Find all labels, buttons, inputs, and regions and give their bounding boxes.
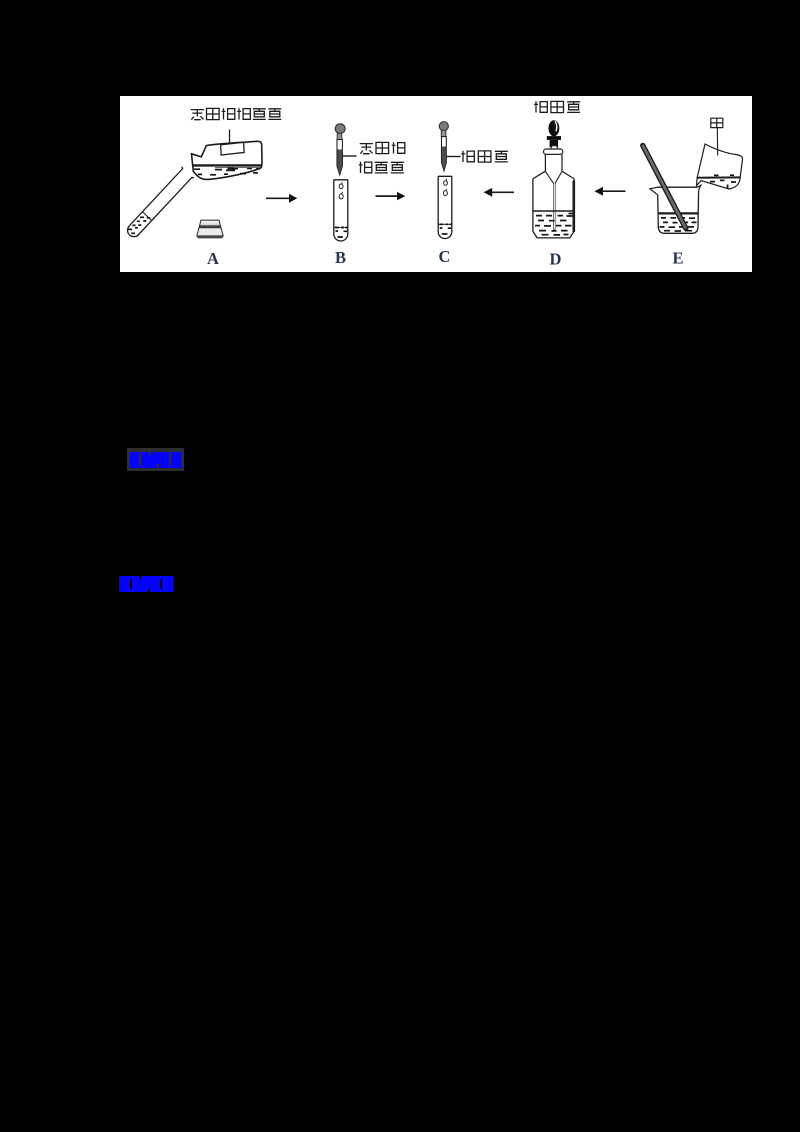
large beaker left spout xyxy=(650,187,658,194)
dropper B collar xyxy=(337,133,342,139)
tube B liquid surface and dashes xyxy=(334,227,347,229)
glass stirring rod xyxy=(643,146,686,229)
dropper cap collar xyxy=(547,136,561,147)
droplet 1 in C xyxy=(444,179,448,185)
blue heading block 2 (answer) xyxy=(119,576,173,592)
droplet 1 in B xyxy=(339,182,343,188)
bottle liquid surface xyxy=(533,210,573,212)
test tube C xyxy=(438,176,452,238)
leader line from label to bottle xyxy=(229,130,231,145)
large beaker liquid dashes xyxy=(660,218,697,231)
leader line to dilute sulfuric acid label xyxy=(447,156,461,158)
label text: NaOH solution (6 chars) xyxy=(191,108,282,120)
label text: dilute sulfuric acid xyxy=(461,151,508,162)
large beaker body xyxy=(658,190,699,233)
bottle right wall shadow xyxy=(572,181,575,233)
svg-text:D: D xyxy=(550,250,562,269)
droplet 2 in C xyxy=(443,189,447,196)
dropper B glass tube xyxy=(337,140,342,175)
bottle mouth rim xyxy=(544,149,563,154)
dropper cap rubber bulb (black) xyxy=(549,120,560,136)
bottle liquid dashes xyxy=(535,214,573,235)
reagent bottle (tilted, pouring) xyxy=(192,141,263,179)
bottle body xyxy=(533,179,574,238)
rubber stopper xyxy=(197,220,223,238)
tube A liquid dashes (horizontal) xyxy=(128,217,150,233)
white diagram panel xyxy=(120,96,752,272)
arrow D to C xyxy=(484,188,514,197)
label text above bottle: dilute sulfuric acid xyxy=(534,101,580,112)
bottle shoulders xyxy=(533,171,574,179)
dropper C glass tube xyxy=(442,137,447,171)
small beaker liquid surface xyxy=(697,176,740,178)
small pouring beaker xyxy=(697,144,743,189)
svg-text:E: E xyxy=(673,249,684,268)
svg-text:C: C xyxy=(439,247,451,266)
leader line from jia into small beaker xyxy=(716,128,718,156)
tube C liquid surface and dashes xyxy=(439,223,452,225)
svg-text:A: A xyxy=(207,249,219,268)
stopper white base wedge xyxy=(551,146,558,149)
bottle liquid surface (thick line) xyxy=(192,164,261,166)
test tube B xyxy=(334,180,348,241)
test tube A (tilted) xyxy=(124,167,194,241)
svg-text:B: B xyxy=(335,248,346,267)
funnel V inside bottle xyxy=(545,171,562,183)
label text: colorless phenolphthalein (line 1) xyxy=(360,142,405,154)
large beaker liquid surface xyxy=(658,212,698,214)
large beaker rim xyxy=(657,186,697,188)
arrow A to B xyxy=(266,194,297,203)
arrow B to C xyxy=(376,192,406,200)
arrow E to D xyxy=(594,187,625,196)
leader line to phenolphthalein label xyxy=(343,155,357,157)
bottle liquid dashes xyxy=(194,168,260,174)
bottle label rectangle xyxy=(221,142,245,155)
dropper C bulb xyxy=(439,122,448,131)
label text: jia (甲) xyxy=(711,118,723,127)
inner dropper tube xyxy=(554,184,556,230)
blue heading block 1 (analysis) on gray box xyxy=(127,448,184,471)
small beaker liquid dashes xyxy=(710,175,736,189)
large beaker right spout xyxy=(698,185,701,190)
dropper C collar xyxy=(441,131,446,137)
bottle neck walls xyxy=(545,155,562,172)
droplet 2 in B xyxy=(339,192,343,199)
label text line 2 xyxy=(359,162,404,173)
dropper B bulb xyxy=(335,124,345,134)
